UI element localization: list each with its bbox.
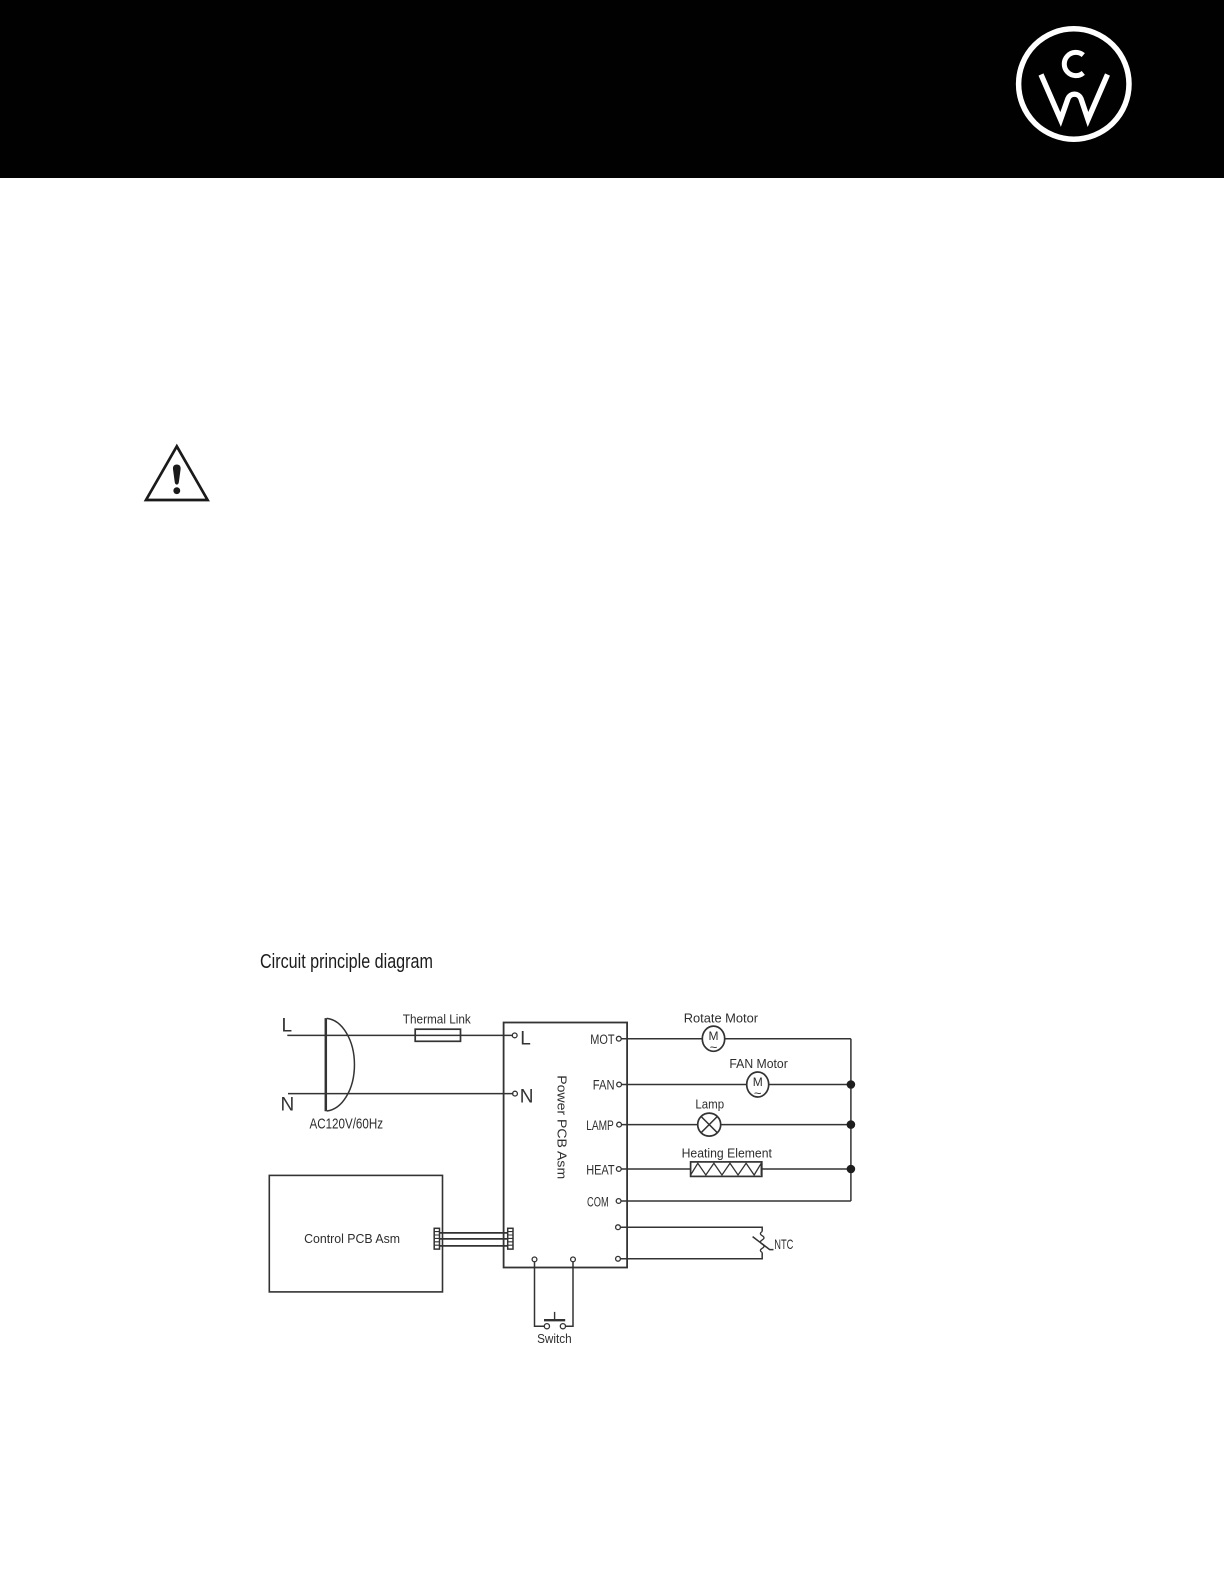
motor M2 FAN Motor (747, 1072, 769, 1097)
wire NTC bottom (620, 1253, 762, 1259)
wire MOT to rotate motor to right bus (621, 1038, 851, 1040)
Power PCB Asm box (504, 1023, 627, 1268)
wire LAMP to lamp to right bus (622, 1124, 851, 1126)
svg-text:L: L (282, 1016, 293, 1037)
svg-text:FAN Motor: FAN Motor (729, 1056, 788, 1071)
ribbon wire 1 (440, 1232, 508, 1234)
svg-text:L: L (520, 1028, 531, 1049)
svg-text:Rotate Motor: Rotate Motor (684, 1010, 759, 1025)
terminal switch right (bottom of box) (571, 1257, 576, 1262)
switch S1 (544, 1324, 549, 1329)
svg-text:Control PCB Asm: Control PCB Asm (304, 1231, 400, 1246)
wire HEAT to heating element to right bus (621, 1168, 851, 1170)
lamp L1 (698, 1113, 721, 1136)
svg-text:Power PCB Asm: Power PCB Asm (555, 1075, 570, 1179)
logo letter W (1041, 75, 1108, 120)
svg-text:~: ~ (754, 1085, 762, 1100)
svg-text:Heating Element: Heating Element (682, 1146, 773, 1161)
svg-text:AC120V/60Hz: AC120V/60Hz (310, 1115, 384, 1132)
svg-text:Thermal Link: Thermal Link (403, 1012, 471, 1027)
wire COM to right bus (621, 1200, 851, 1202)
motor M1 Rotate Motor (702, 1026, 724, 1051)
junction dot LAMP/bus (847, 1120, 856, 1129)
svg-text:N: N (520, 1086, 534, 1107)
right bus wire (850, 1039, 852, 1201)
svg-text:Lamp: Lamp (695, 1097, 724, 1112)
junction dot HEAT/bus (847, 1165, 856, 1174)
ribbon wire 2 (440, 1238, 508, 1240)
CW logo (0, 0, 1224, 178)
svg-text:HEAT: HEAT (586, 1163, 614, 1178)
header bar (0, 0, 1224, 178)
svg-text:Switch: Switch (537, 1331, 572, 1346)
terminal NTC top (616, 1225, 621, 1230)
heating element R1 (691, 1162, 762, 1177)
thermistor NTC (760, 1232, 764, 1253)
connector block on Power PCB (508, 1228, 513, 1249)
wire L from source to Power PCB terminal (287, 1034, 513, 1036)
wire N from source to Power PCB terminal (288, 1093, 513, 1095)
Control PCB Asm box (269, 1175, 442, 1292)
wire FAN to fan motor to right bus (622, 1084, 851, 1086)
junction dot FAN/bus (847, 1080, 856, 1089)
wire switch right vertical (566, 1262, 573, 1326)
wire switch left vertical (535, 1262, 545, 1326)
svg-text:MOT: MOT (590, 1032, 614, 1047)
terminal L of Power PCB (512, 1033, 517, 1038)
connector block on Control PCB (434, 1228, 439, 1249)
section title (260, 952, 433, 972)
warning triangle (146, 446, 208, 500)
logo outer circle (1019, 29, 1129, 139)
svg-text:FAN: FAN (593, 1077, 615, 1092)
terminal N of Power PCB (513, 1091, 518, 1096)
svg-text:N: N (281, 1095, 295, 1116)
terminal NTC bottom (616, 1256, 621, 1261)
terminal switch left (bottom of box) (532, 1257, 537, 1262)
AC plug symbol (325, 1018, 328, 1111)
thermal link fuse body (415, 1029, 460, 1041)
svg-text:NTC: NTC (774, 1236, 793, 1252)
svg-text:LAMP: LAMP (586, 1118, 614, 1133)
svg-text:COM: COM (587, 1194, 609, 1209)
svg-text:~: ~ (710, 1040, 718, 1055)
ribbon wire 3 (440, 1245, 508, 1247)
wire NTC top (620, 1227, 762, 1231)
logo letter C (1064, 52, 1083, 75)
